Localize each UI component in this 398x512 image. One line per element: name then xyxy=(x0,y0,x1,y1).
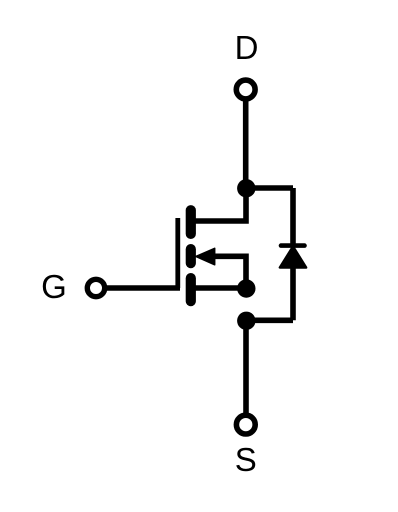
wire diode branch upper vertical xyxy=(290,188,296,246)
wire drain vertical xyxy=(243,99,249,188)
wire source horizontal from channel xyxy=(196,285,247,291)
node source-diode junction xyxy=(237,312,255,330)
wire gate horizontal xyxy=(104,285,180,291)
svg-text:D: D xyxy=(235,29,259,66)
transistor Q1 channel segment bottom xyxy=(186,278,196,301)
transistor Q1 body arrow xyxy=(196,248,215,264)
node source-body junction xyxy=(237,279,255,297)
wire diode branch lower vertical xyxy=(290,266,296,320)
terminal G xyxy=(87,279,104,296)
diode D1 cathode bar xyxy=(281,243,305,248)
node drain junction xyxy=(237,179,255,197)
wire diode bottom to source junction xyxy=(246,317,293,323)
wire body to source xyxy=(212,256,246,288)
svg-text:S: S xyxy=(235,441,257,478)
terminal D xyxy=(236,80,255,99)
wire drain horizontal to channel xyxy=(196,188,247,221)
transistor Q1 gate electrode line xyxy=(175,218,180,288)
transistor Q1 channel segment top xyxy=(186,210,196,234)
wire junction to diode top xyxy=(246,185,293,191)
diode D1 triangle xyxy=(280,247,306,268)
wire source vertical to terminal xyxy=(243,320,249,413)
svg-text:G: G xyxy=(41,268,67,305)
transistor Q1 channel segment middle xyxy=(186,249,196,263)
terminal S xyxy=(236,415,255,434)
